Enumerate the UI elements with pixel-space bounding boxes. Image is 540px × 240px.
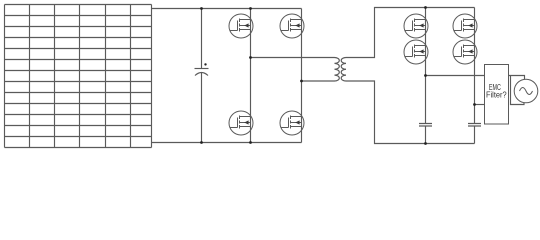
EMC filter box bbox=[485, 65, 509, 125]
wire left leg bridge2 upper bbox=[425, 8, 427, 124]
transistor Q4 bbox=[280, 111, 304, 135]
wire left leg bridge2 lower bbox=[425, 126, 427, 144]
capacitor C3 plates bbox=[468, 124, 481, 127]
wire bottom rail bridge1 bbox=[152, 142, 302, 144]
wire phase A to EMC box bbox=[426, 75, 485, 77]
node phase2 tap junction bbox=[300, 80, 303, 83]
transistor Q7 bbox=[453, 14, 477, 38]
node top rail cap junction bbox=[200, 7, 203, 10]
inductor L2 transformer secondary bbox=[341, 58, 346, 82]
wire phase B to EMC box bbox=[475, 104, 485, 106]
node bridge2 left output junction bbox=[424, 74, 427, 77]
transistor Q3 bbox=[229, 111, 253, 135]
AC source V1 bbox=[514, 79, 538, 103]
node phase1 tap junction bbox=[249, 56, 252, 59]
wire secondary top lead to bridge2 top rail bbox=[346, 8, 475, 58]
wire primary bottom tap bbox=[302, 80, 335, 82]
node top rail left leg junction bbox=[249, 7, 252, 10]
capacitor C2 plates bbox=[419, 124, 432, 127]
transistor Q6 bbox=[404, 40, 428, 64]
node bottom rail left leg junction bbox=[249, 141, 252, 144]
inductor L1 transformer primary bbox=[335, 58, 340, 82]
transistor Q5 bbox=[404, 14, 428, 38]
wire DC link cap top bbox=[201, 9, 203, 69]
wire left leg bridge1 bbox=[250, 9, 252, 143]
wire secondary bottom lead to bridge2 bottom rail bbox=[346, 81, 475, 144]
wire EMC box to AC source top bbox=[509, 76, 525, 80]
transistor Q1 bbox=[229, 14, 253, 38]
wire right leg bridge2 lower bbox=[474, 126, 476, 144]
wire primary top tap bbox=[251, 57, 335, 59]
node bridge2 bottom rail junction bbox=[424, 142, 427, 145]
node bridge2 right output junction bbox=[473, 103, 476, 106]
PV panel array grid bbox=[5, 5, 152, 148]
wire right leg bridge2 upper bbox=[474, 8, 476, 124]
wire right leg bridge1 bbox=[301, 9, 303, 143]
svg-text:Filter?: Filter? bbox=[486, 90, 507, 100]
transistor Q2 bbox=[280, 14, 304, 38]
polarity mark C1 plus bbox=[204, 63, 206, 65]
wire top rail bridge1 bbox=[152, 8, 302, 10]
node bottom rail cap junction bbox=[200, 141, 203, 144]
wire AC source bottom loop bbox=[511, 76, 525, 105]
capacitor C1 polarized bbox=[195, 68, 209, 70]
transistor Q8 bbox=[453, 40, 477, 64]
sine wave bbox=[520, 88, 533, 95]
wire DC link cap bottom bbox=[201, 73, 203, 143]
node bridge2 top rail junction bbox=[424, 6, 427, 9]
